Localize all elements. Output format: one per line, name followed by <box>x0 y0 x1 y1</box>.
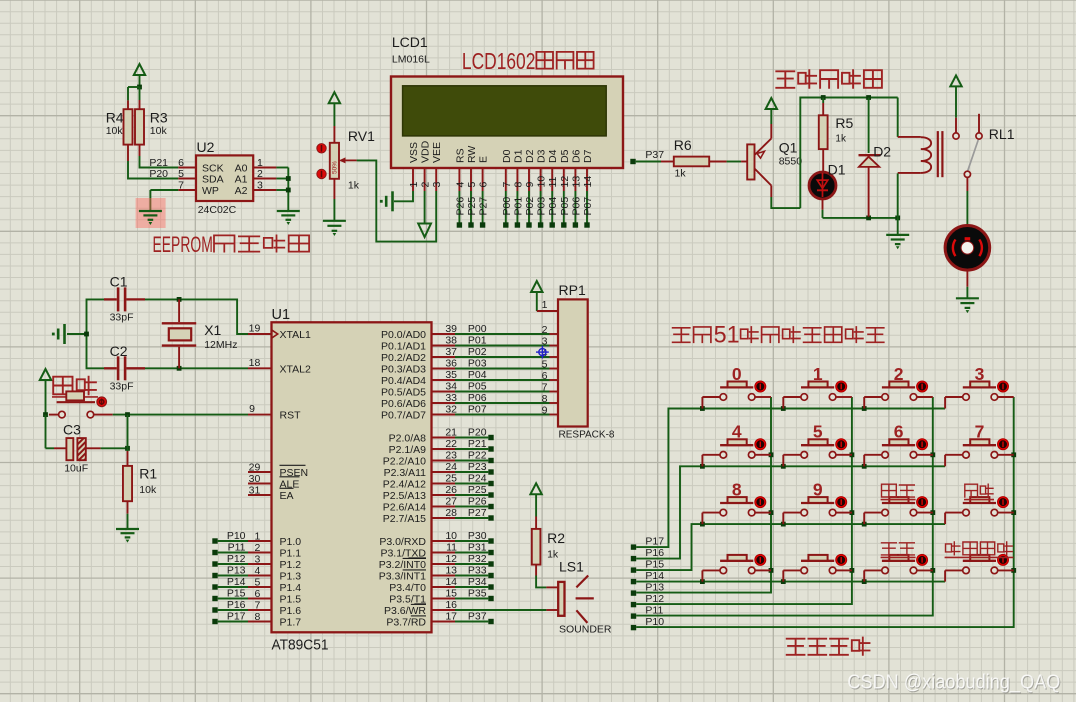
svg-text:30: 30 <box>249 473 261 485</box>
svg-text:C2: C2 <box>110 343 128 359</box>
svg-text:P12: P12 <box>227 553 246 565</box>
svg-text:7: 7 <box>975 422 985 442</box>
svg-text:P1.3: P1.3 <box>280 570 302 582</box>
svg-text:38: 38 <box>445 335 457 347</box>
svg-text:P17: P17 <box>227 611 246 623</box>
svg-text:RW: RW <box>466 146 478 163</box>
svg-text:P13: P13 <box>227 565 246 577</box>
svg-text:P21: P21 <box>468 438 487 450</box>
svg-text:9: 9 <box>249 403 255 415</box>
svg-text:P1.6: P1.6 <box>280 605 302 617</box>
svg-text:P05: P05 <box>468 381 487 393</box>
svg-text:4: 4 <box>454 182 466 188</box>
svg-text:P02: P02 <box>524 197 536 216</box>
svg-text:P2.2/A10: P2.2/A10 <box>383 455 426 467</box>
svg-text:2: 2 <box>420 182 432 188</box>
svg-text:3: 3 <box>975 364 985 384</box>
svg-text:5: 5 <box>178 168 184 180</box>
svg-text:12MHz: 12MHz <box>204 339 237 351</box>
svg-text:P34: P34 <box>468 576 487 588</box>
svg-text:P31: P31 <box>468 542 487 554</box>
svg-text:R5: R5 <box>835 115 853 131</box>
svg-text:P06: P06 <box>468 392 487 404</box>
svg-text:7: 7 <box>501 182 513 188</box>
svg-text:P1.4: P1.4 <box>280 582 302 594</box>
svg-text:LCD1602: LCD1602 <box>462 48 536 74</box>
svg-text:1: 1 <box>813 364 823 384</box>
svg-text:P14: P14 <box>227 576 246 588</box>
svg-text:P0.4/AD4: P0.4/AD4 <box>381 375 426 387</box>
svg-text:33pF: 33pF <box>110 312 134 324</box>
svg-text:6: 6 <box>542 370 548 382</box>
svg-text:10: 10 <box>536 176 548 188</box>
svg-text:R3: R3 <box>150 110 168 126</box>
svg-text:P22: P22 <box>468 450 487 462</box>
svg-text:34: 34 <box>445 381 457 393</box>
svg-text:P25: P25 <box>468 484 487 496</box>
svg-text:P33: P33 <box>468 565 487 577</box>
svg-text:P0.3/AD3: P0.3/AD3 <box>381 363 426 375</box>
svg-text:CSDN @xiaobuding_QAQ: CSDN @xiaobuding_QAQ <box>847 671 1060 694</box>
svg-text:D7: D7 <box>582 149 594 163</box>
svg-text:VSS: VSS <box>408 142 420 163</box>
svg-text:X1: X1 <box>204 322 221 338</box>
svg-text:RL1: RL1 <box>989 126 1015 142</box>
svg-text:2: 2 <box>254 542 260 554</box>
svg-text:10k: 10k <box>106 125 124 137</box>
svg-text:10k: 10k <box>150 125 168 137</box>
svg-text:P3.4/T0: P3.4/T0 <box>389 582 426 594</box>
svg-text:P14: P14 <box>645 570 664 582</box>
svg-text:P3.3/INT1: P3.3/INT1 <box>379 570 426 582</box>
svg-text:P2.1/A9: P2.1/A9 <box>389 444 427 456</box>
svg-text:R6: R6 <box>674 137 692 153</box>
svg-text:5: 5 <box>542 359 548 371</box>
svg-text:AT89C51: AT89C51 <box>272 637 329 654</box>
svg-text:SDA: SDA <box>202 174 224 186</box>
svg-text:1: 1 <box>408 182 420 188</box>
svg-text:EEPROM: EEPROM <box>153 232 213 257</box>
svg-text:P15: P15 <box>645 559 664 571</box>
svg-text:Q1: Q1 <box>779 139 798 155</box>
svg-text:VDD: VDD <box>420 140 432 163</box>
svg-text:36: 36 <box>445 358 457 370</box>
svg-text:P03: P03 <box>468 358 487 370</box>
svg-text:C3: C3 <box>63 422 81 438</box>
svg-text:P2.5/A13: P2.5/A13 <box>383 490 426 502</box>
svg-text:39: 39 <box>445 323 457 335</box>
svg-text:D4: D4 <box>547 149 559 163</box>
svg-text:33pF: 33pF <box>110 381 134 393</box>
svg-text:P0.6/AD6: P0.6/AD6 <box>381 398 426 410</box>
svg-text:8: 8 <box>542 393 548 405</box>
svg-text:P2.3/A11: P2.3/A11 <box>384 467 427 479</box>
svg-text:37: 37 <box>445 346 457 358</box>
svg-text:9: 9 <box>524 182 536 188</box>
svg-text:P32: P32 <box>468 553 487 565</box>
svg-text:P01: P01 <box>512 197 524 216</box>
svg-text:D3: D3 <box>536 149 548 163</box>
svg-text:21: 21 <box>445 427 457 439</box>
svg-text:4: 4 <box>254 565 260 577</box>
svg-text:3: 3 <box>254 554 260 566</box>
svg-text:RP1: RP1 <box>559 282 586 298</box>
svg-text:P05: P05 <box>559 197 571 216</box>
svg-text:P3.6/WR: P3.6/WR <box>384 605 426 617</box>
svg-text:P2.0/A8: P2.0/A8 <box>389 432 427 444</box>
svg-text:RV1: RV1 <box>348 128 375 144</box>
svg-text:P01: P01 <box>468 335 487 347</box>
svg-text:P1.2: P1.2 <box>280 559 302 571</box>
svg-text:11: 11 <box>547 176 559 187</box>
svg-text:26: 26 <box>445 484 457 496</box>
svg-text:D1: D1 <box>828 162 846 178</box>
svg-text:P35: P35 <box>468 588 487 600</box>
svg-text:C1: C1 <box>110 274 128 290</box>
svg-text:5: 5 <box>254 577 260 589</box>
svg-text:P1.1: P1.1 <box>280 547 302 559</box>
svg-text:P3.0/RXD: P3.0/RXD <box>379 536 426 548</box>
svg-text:28: 28 <box>445 507 457 519</box>
svg-text:D5: D5 <box>559 149 571 163</box>
svg-text:P00: P00 <box>501 197 513 216</box>
svg-text:18: 18 <box>249 357 261 369</box>
svg-text:R2: R2 <box>547 530 565 546</box>
svg-text:P2.7/A15: P2.7/A15 <box>383 513 426 525</box>
svg-text:24C02C: 24C02C <box>198 204 237 216</box>
svg-text:P07: P07 <box>468 404 487 416</box>
svg-text:4: 4 <box>732 422 742 442</box>
svg-text:P10: P10 <box>227 530 246 542</box>
svg-text:P24: P24 <box>468 473 487 485</box>
svg-text:19: 19 <box>249 323 261 335</box>
svg-text:1k: 1k <box>675 168 687 180</box>
svg-text:7: 7 <box>178 180 184 192</box>
svg-text:7: 7 <box>254 600 260 612</box>
svg-text:P0.0/AD0: P0.0/AD0 <box>381 329 426 341</box>
svg-text:P3.7/RD: P3.7/RD <box>386 616 426 628</box>
svg-text:10k: 10k <box>139 484 157 496</box>
svg-text:P1.5: P1.5 <box>280 593 302 605</box>
svg-text:EA: EA <box>280 490 294 502</box>
svg-text:P37: P37 <box>645 149 664 161</box>
svg-text:RS: RS <box>454 148 466 163</box>
svg-text:7: 7 <box>542 382 548 394</box>
svg-text:E: E <box>478 156 490 163</box>
svg-text:1: 1 <box>542 299 548 311</box>
svg-text:P06: P06 <box>570 197 582 216</box>
svg-text:31: 31 <box>249 485 261 497</box>
svg-text:P26: P26 <box>468 496 487 508</box>
svg-text:27: 27 <box>445 496 457 508</box>
svg-text:5: 5 <box>466 182 478 188</box>
svg-text:3: 3 <box>431 182 443 188</box>
svg-text:P04: P04 <box>468 369 487 381</box>
svg-text:2: 2 <box>257 168 263 180</box>
svg-text:XTAL1: XTAL1 <box>280 329 311 341</box>
svg-text:50%: 50% <box>332 161 339 174</box>
svg-text:23: 23 <box>445 450 457 462</box>
svg-text:35: 35 <box>445 369 457 381</box>
svg-text:P0.2/AD2: P0.2/AD2 <box>381 352 426 364</box>
svg-text:A1: A1 <box>235 174 248 186</box>
svg-text:RST: RST <box>280 409 302 421</box>
svg-text:12: 12 <box>559 176 571 188</box>
svg-text:5: 5 <box>813 422 823 442</box>
svg-text:A2: A2 <box>235 185 248 197</box>
svg-text:24: 24 <box>445 461 457 473</box>
svg-text:VEE: VEE <box>431 142 443 163</box>
svg-text:6: 6 <box>894 422 904 442</box>
svg-text:1k: 1k <box>547 548 559 560</box>
svg-text:LCD1: LCD1 <box>392 34 428 50</box>
svg-text:8550: 8550 <box>779 156 803 168</box>
svg-text:6: 6 <box>478 182 490 188</box>
svg-text:P3.2/INT0: P3.2/INT0 <box>379 559 426 571</box>
svg-text:U1: U1 <box>272 307 291 323</box>
svg-text:WP: WP <box>202 185 219 197</box>
svg-text:P27: P27 <box>478 197 490 216</box>
svg-text:P20: P20 <box>468 427 487 439</box>
svg-text:D1: D1 <box>512 149 524 163</box>
svg-text:33: 33 <box>445 392 457 404</box>
svg-text:P2.6/A14: P2.6/A14 <box>383 501 426 513</box>
svg-text:P03: P03 <box>536 197 548 216</box>
svg-text:D0: D0 <box>501 149 513 163</box>
svg-text:13: 13 <box>570 176 582 188</box>
svg-text:LM016L: LM016L <box>392 54 430 66</box>
svg-text:U2: U2 <box>197 139 215 155</box>
svg-text:14: 14 <box>582 176 594 188</box>
svg-text:RESPACK-8: RESPACK-8 <box>559 429 615 441</box>
svg-text:P16: P16 <box>227 599 246 611</box>
svg-text:22: 22 <box>445 438 457 450</box>
svg-text:P15: P15 <box>227 588 246 600</box>
svg-text:32: 32 <box>445 404 457 416</box>
svg-text:P23: P23 <box>468 461 487 473</box>
svg-text:P1.7: P1.7 <box>280 616 302 628</box>
svg-text:9: 9 <box>542 405 548 417</box>
svg-text:P27: P27 <box>468 507 487 519</box>
svg-text:2: 2 <box>542 324 548 336</box>
svg-text:P0.1/AD1: P0.1/AD1 <box>381 340 426 352</box>
svg-text:R1: R1 <box>139 465 157 481</box>
svg-text:P25: P25 <box>466 197 478 216</box>
svg-text:29: 29 <box>249 462 261 474</box>
svg-text:51: 51 <box>714 322 740 349</box>
svg-text:P37: P37 <box>468 611 487 623</box>
svg-text:1k: 1k <box>348 179 360 191</box>
svg-text:9: 9 <box>813 479 823 499</box>
svg-text:P2.4/A12: P2.4/A12 <box>383 478 426 490</box>
svg-text:P07: P07 <box>582 197 594 216</box>
svg-text:1: 1 <box>254 531 260 543</box>
svg-text:8: 8 <box>254 611 260 623</box>
svg-text:P0.5/AD5: P0.5/AD5 <box>381 386 426 398</box>
svg-text:XTAL2: XTAL2 <box>280 363 311 375</box>
svg-text:D6: D6 <box>570 149 582 163</box>
svg-text:P02: P02 <box>468 346 487 358</box>
svg-text:P11: P11 <box>228 542 246 554</box>
svg-text:LS1: LS1 <box>559 559 584 575</box>
svg-text:2: 2 <box>894 364 904 384</box>
svg-text:10uF: 10uF <box>64 463 88 475</box>
svg-text:P26: P26 <box>454 197 466 216</box>
svg-text:6: 6 <box>254 588 260 600</box>
svg-text:P0.7/AD7: P0.7/AD7 <box>381 409 426 421</box>
svg-text:0: 0 <box>732 364 742 384</box>
svg-text:1k: 1k <box>835 134 847 145</box>
svg-text:P00: P00 <box>468 323 487 335</box>
svg-text:8: 8 <box>732 479 742 499</box>
svg-text:3: 3 <box>257 180 263 192</box>
svg-text:P16: P16 <box>645 547 664 559</box>
svg-text:D2: D2 <box>873 144 891 160</box>
svg-text:P1.0: P1.0 <box>280 536 302 548</box>
svg-text:P20: P20 <box>149 168 168 180</box>
svg-text:P30: P30 <box>468 530 487 542</box>
svg-text:25: 25 <box>445 473 457 485</box>
svg-text:P04: P04 <box>547 197 559 216</box>
svg-text:8: 8 <box>512 182 524 188</box>
svg-text:D2: D2 <box>524 149 536 163</box>
svg-text:R4: R4 <box>106 110 124 126</box>
svg-text:SOUNDER: SOUNDER <box>559 624 612 636</box>
svg-text:P17: P17 <box>645 536 664 548</box>
